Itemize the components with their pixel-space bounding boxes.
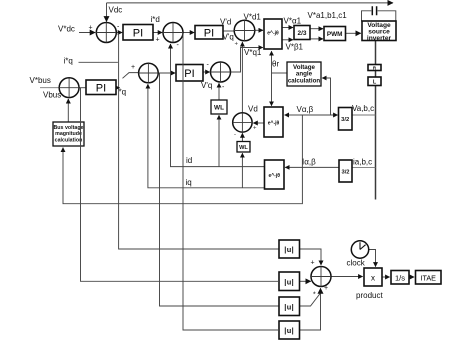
abs block |u| 2: [279, 272, 300, 291]
svg-text:clock: clock: [347, 259, 366, 268]
voltage angle calculation block: [287, 62, 321, 86]
gain block WL1: [211, 100, 227, 114]
wire iq feedback from box3 to C3 bottom: [148, 84, 265, 188]
svg-text:i*d: i*d: [151, 15, 160, 24]
wire ia,b,c from main line to 3/2: [352, 166, 376, 168]
voltage source inverter block: [362, 21, 396, 42]
sign plus at C3: [131, 64, 135, 71]
wire bus sum C9 to bus PI: [79, 87, 85, 89]
rotation block e^-j0 #3: [265, 160, 285, 189]
wire clock to product top: [369, 250, 376, 267]
svg-text:PI: PI: [96, 83, 106, 95]
svg-text:V'q: V'q: [223, 33, 234, 42]
PI controller PI1 (dc voltage): [123, 25, 153, 41]
svg-text:e^-jθ: e^-jθ: [267, 31, 279, 37]
wire V*b1 from box1 to 2/3: [282, 39, 293, 41]
sign minus at C1 top: [117, 24, 120, 31]
node V-alpha-beta label: [297, 105, 314, 114]
svg-text:WL: WL: [214, 105, 224, 112]
sign plus at C7 top: [311, 260, 315, 267]
wire Vdc feedback top horizontal: [107, 2, 394, 4]
svg-text:|u|: |u|: [284, 326, 294, 335]
svg-text:V*β1: V*β1: [286, 43, 304, 52]
node V'q label upper: [223, 33, 234, 42]
wire Vdc feedback drop into C1 top: [106, 3, 108, 22]
PWM block: [324, 27, 346, 41]
capacitor dc-link: [362, 6, 396, 21]
wire q-error tap down to |u|3: [160, 73, 280, 306]
svg-text:Va,b,c: Va,b,c: [352, 104, 374, 113]
svg-text:V*d1: V*d1: [244, 13, 262, 22]
svg-text:id: id: [186, 156, 192, 165]
wire WL2 output into C6 bottom: [241, 133, 243, 141]
svg-text:PI: PI: [204, 28, 214, 40]
sum junction C6 (Vd comp): [233, 113, 252, 132]
svg-text:+: +: [131, 64, 135, 71]
wire Va,b,c from main line to 3/2: [352, 114, 376, 116]
svg-text:Vdc: Vdc: [109, 6, 123, 15]
wire I-alpha-beta into box3: [285, 166, 339, 168]
node *q label: [119, 88, 127, 97]
transform block 2/3: [294, 26, 310, 40]
wire theta-r up into box1 bottom: [271, 51, 273, 73]
clock block: [351, 241, 368, 258]
svg-text:product: product: [356, 291, 383, 300]
node V*dc label: [58, 25, 75, 34]
svg-text:PWM: PWM: [327, 31, 343, 38]
sign minus at C2 bottom: [177, 42, 180, 49]
wire V-alpha-beta into 3/2 right arrow: [300, 114, 338, 116]
wire voltage angle calc output: [272, 72, 288, 74]
abs block |u| 4: [279, 321, 300, 339]
node i*q label: [64, 56, 73, 65]
product label: [356, 291, 383, 300]
wire Vd from box2 into C6: [253, 122, 264, 124]
wire id feedback from box3 to C2 bottom: [171, 44, 265, 167]
node V'q label lower: [201, 81, 212, 90]
node V*q1 label: [244, 48, 262, 57]
node V*bus label: [30, 76, 51, 85]
filter resistor R block: [368, 65, 381, 71]
wire PI2 to sum C5: [223, 30, 234, 32]
node V*beta1 label: [286, 43, 304, 52]
integrator block 1/s: [391, 271, 409, 285]
wire iq branch up into WL2: [241, 153, 243, 188]
svg-text:iq: iq: [186, 178, 192, 187]
svg-text:WL: WL: [239, 145, 248, 151]
wire |u|1 output into C7 top: [300, 249, 322, 265]
abs block |u| 1: [279, 240, 300, 258]
svg-text:i*q: i*q: [64, 56, 73, 65]
sign minus at C6 bottom: [234, 132, 236, 138]
svg-text:*q: *q: [119, 88, 127, 97]
wire i*q reference: [79, 61, 118, 63]
node iq label: [186, 178, 192, 187]
svg-text:Vd: Vd: [248, 105, 258, 114]
wire product to 1/s: [382, 276, 390, 278]
svg-text:+: +: [89, 25, 93, 32]
sign minus at C4 bottom: [222, 84, 225, 91]
wire inverter output down through filter: [375, 41, 377, 200]
svg-text:Iα,β: Iα,β: [302, 158, 316, 167]
wire PIq output to sum C4: [203, 71, 210, 73]
sum junction C7 (|u| sum): [311, 267, 331, 287]
svg-text:V*q1: V*q1: [244, 48, 262, 57]
svg-text:3/2: 3/2: [341, 170, 349, 176]
node Vbus label: [43, 91, 61, 100]
wire C5 output V*d1 to e^-j0 box1: [255, 29, 263, 31]
PI controller PI3 (q current): [176, 65, 203, 82]
wire bus-error tap down to |u|2: [81, 88, 280, 282]
svg-text:|u|: |u|: [284, 303, 294, 312]
sign plus at C1 left: [89, 25, 93, 32]
wire PI1 to sum C2: [153, 32, 162, 34]
svg-text:V*α1: V*α1: [284, 17, 302, 26]
wire V*bus input: [40, 87, 59, 89]
sum junction C9 (bus voltage): [59, 78, 79, 98]
product block x: [364, 268, 382, 286]
wire theta-r down into box2 top: [271, 73, 273, 106]
sign plus at C2: [156, 37, 160, 44]
wire C4 output V*q1 routed to box1: [231, 48, 263, 73]
svg-text:V*a1,b1,c1: V*a1,b1,c1: [308, 11, 348, 20]
wire WL1 output into C4 bottom: [218, 83, 220, 100]
wire 2/3 to PWM line a: [310, 28, 323, 30]
node Vd label: [248, 105, 258, 114]
node V*d1 label: [244, 13, 262, 22]
wire id branch up into WL1: [218, 115, 220, 166]
wire bus calc output up to C9 bottom: [67, 99, 69, 122]
sign minus at C4 left: [207, 62, 210, 69]
wire |u|2 output into C7 left: [300, 280, 311, 282]
rotation block e^-j0 #1: [264, 19, 282, 49]
sum junction C2 (i*d): [163, 23, 183, 43]
sum junction C3 (i*q): [139, 63, 159, 83]
svg-text:V'd: V'd: [220, 17, 231, 26]
node Va,b,c label: [352, 104, 374, 113]
bus voltage magnitude calculation block: [53, 122, 84, 146]
sign plus at C6 right: [253, 126, 257, 132]
wire C3 output to PIq: [158, 72, 175, 74]
sum junction C5 (V'd): [234, 20, 255, 41]
gain block WL2: [237, 142, 250, 153]
wire |u|3 output diagonal: [300, 293, 321, 306]
node V*alpha1 label: [284, 17, 302, 26]
node V*a1,b1,c1 label: [308, 11, 348, 20]
svg-text:+: +: [235, 42, 239, 48]
svg-text:inverter: inverter: [367, 35, 392, 42]
svg-text:2/3: 2/3: [297, 30, 306, 37]
wire dc-error tap down to |u|1: [119, 33, 279, 249]
wire C7 output to product: [331, 276, 363, 278]
svg-text:+: +: [253, 126, 257, 132]
svg-text:magnitude: magnitude: [55, 131, 82, 137]
PI controller PI2 (d current): [195, 26, 223, 40]
svg-text:Bus voltage: Bus voltage: [53, 125, 83, 131]
svg-text:*: *: [313, 292, 316, 299]
node I-alpha-beta label: [302, 158, 316, 167]
sum junction C4 (V'q): [211, 62, 231, 82]
svg-text:Vα,β: Vα,β: [297, 105, 314, 114]
filter inductor L block: [368, 77, 381, 86]
svg-text:e^-jθ: e^-jθ: [268, 121, 280, 127]
transform block 3/2 (current): [339, 160, 352, 182]
wire V*a1 from box1 to 2/3: [282, 27, 293, 29]
svg-text:+: +: [156, 37, 160, 44]
node theta-r label: [272, 60, 279, 69]
svg-text:e^-jθ: e^-jθ: [268, 173, 280, 179]
svg-text:calculation: calculation: [55, 137, 83, 143]
sum junction C1 (Vdc): [96, 23, 116, 43]
svg-text:PI: PI: [133, 28, 143, 40]
wire V-alpha-beta tap routed to bus calculation: [63, 115, 302, 204]
node id label: [186, 156, 192, 165]
ITAE block: [416, 271, 442, 285]
svg-text:3/2: 3/2: [341, 117, 349, 123]
svg-text:+: +: [324, 285, 328, 292]
abs block |u| 3: [279, 297, 300, 316]
sign plus at C7 bottom right: [324, 285, 328, 292]
svg-text:PI: PI: [184, 68, 194, 80]
wire PWM to voltage source inverter: [346, 32, 361, 34]
svg-text:Vbus: Vbus: [43, 91, 61, 100]
transform block 3/2 (voltage): [339, 108, 353, 131]
svg-text:1/s: 1/s: [395, 273, 405, 282]
wire V-alpha-beta into box2: [285, 114, 300, 116]
svg-text:V'q: V'q: [201, 81, 212, 90]
wire C1 output to PI1: [116, 32, 122, 34]
sign plus at C5 bottom: [235, 42, 239, 48]
svg-text:ITAE: ITAE: [420, 273, 436, 282]
svg-text:ia,b,c: ia,b,c: [353, 158, 372, 167]
svg-text:+: +: [311, 260, 315, 267]
svg-text:x: x: [371, 274, 375, 283]
svg-text:θr: θr: [272, 60, 279, 69]
wire bus PI output arrow: [116, 87, 120, 89]
node Vdc label: [109, 6, 123, 15]
wire d-error tap down to |u|4: [183, 33, 279, 330]
svg-text:V*bus: V*bus: [30, 76, 51, 85]
wire branch up to voltage angle calculation: [322, 78, 330, 115]
switch blade to sum C3: [123, 73, 139, 79]
wire 2/3 to PWM line b: [310, 38, 323, 40]
wire C6 output up into C5 bottom: [241, 42, 243, 112]
svg-text:|u|: |u|: [284, 278, 294, 287]
svg-text:calculation: calculation: [288, 77, 321, 84]
clock label: [347, 259, 366, 268]
wire 1/s to ITAE: [409, 276, 414, 278]
wire C2 output to PI2: [183, 32, 194, 34]
svg-text:|u|: |u|: [284, 245, 294, 254]
rotation block e^-j0 #2: [264, 107, 283, 137]
node ia,b,c label: [353, 158, 372, 167]
PI controller PI4 (bus voltage): [86, 80, 116, 95]
node V'd label: [220, 17, 231, 26]
sign star at C7 bottom left: [313, 292, 316, 299]
wire V*dc input to sum C1: [79, 32, 95, 34]
svg-text:V*dc: V*dc: [58, 25, 75, 34]
wire |u|4 output up into C7 bottom: [300, 288, 321, 330]
svg-text:-: -: [234, 132, 236, 138]
node i*d label: [151, 15, 160, 24]
